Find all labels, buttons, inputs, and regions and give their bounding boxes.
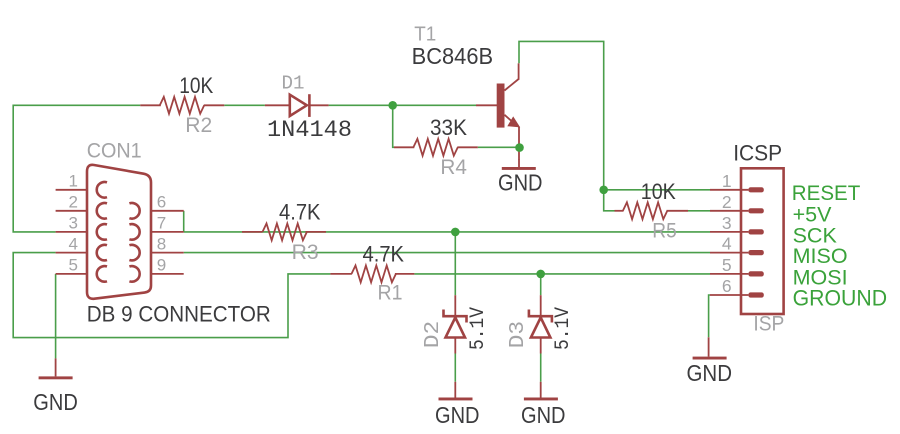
wire collector to ICSP vertical rail bbox=[519, 41, 604, 189]
svg-text:R2: R2 bbox=[185, 114, 212, 137]
wire MISO net DB9 pin8 to ICSP pin4 bbox=[184, 252, 710, 254]
svg-text:ISP: ISP bbox=[753, 312, 784, 335]
svg-text:D3: D3 bbox=[507, 321, 530, 349]
diode D1 1N4148 bbox=[265, 73, 352, 145]
svg-text:6: 6 bbox=[722, 276, 732, 296]
svg-text:BC846B: BC846B bbox=[412, 43, 494, 69]
resistor R3 bbox=[242, 200, 326, 265]
svg-text:10K: 10K bbox=[641, 179, 676, 204]
svg-text:GROUND: GROUND bbox=[793, 285, 888, 310]
svg-text:8: 8 bbox=[157, 234, 166, 253]
ICSP pin 4 bbox=[710, 234, 764, 256]
svg-text:GND: GND bbox=[33, 389, 78, 415]
wire node to ICSP pin1 RESET bbox=[604, 189, 710, 191]
svg-text:5: 5 bbox=[69, 256, 78, 275]
svg-text:5.1V: 5.1V bbox=[467, 307, 490, 350]
svg-text:33K: 33K bbox=[430, 115, 467, 140]
DB9 pin 1 bbox=[56, 172, 107, 198]
svg-text:3: 3 bbox=[722, 213, 732, 233]
ground under D2 bbox=[435, 382, 480, 428]
connector CON1 DB9 bbox=[87, 140, 271, 327]
wire SCK net DB9 pin7 to ICSP pin3 bbox=[184, 231, 710, 233]
DB9 pin 8 bbox=[129, 234, 183, 260]
svg-text:GND: GND bbox=[435, 402, 480, 428]
DB9 pin 9 bbox=[129, 256, 183, 282]
node MOSI-D3 junction bbox=[536, 270, 545, 279]
node collector junction bbox=[599, 186, 608, 195]
DB9 pin 5 bbox=[56, 256, 107, 282]
wire R4 to emitter node bbox=[478, 146, 520, 148]
node base junction bbox=[388, 101, 397, 110]
svg-text:4: 4 bbox=[69, 234, 78, 253]
ground under D3 bbox=[521, 382, 566, 428]
svg-text:D2: D2 bbox=[422, 321, 445, 349]
wire D3 bottom to GND bbox=[540, 354, 542, 382]
svg-text:GND: GND bbox=[687, 360, 733, 386]
svg-text:2: 2 bbox=[722, 192, 732, 212]
node emitter junction bbox=[515, 143, 524, 152]
svg-text:5: 5 bbox=[722, 255, 732, 275]
svg-text:10K: 10K bbox=[179, 73, 213, 98]
svg-text:R3: R3 bbox=[292, 241, 319, 264]
svg-text:D1: D1 bbox=[282, 73, 305, 95]
ground under T1 bbox=[498, 159, 543, 196]
wire D3 top bbox=[540, 274, 542, 295]
wire DB9 pin5 to GND bbox=[55, 274, 57, 359]
DB9 pin 3 bbox=[56, 214, 107, 240]
connector ICSP header bbox=[733, 140, 784, 335]
ICSP pin 3 bbox=[710, 213, 764, 235]
wire MOSI net R1 to ICSP pin5 bbox=[414, 273, 710, 275]
ICSP pin 6 bbox=[710, 276, 764, 298]
svg-text:R5: R5 bbox=[652, 219, 677, 242]
svg-text:6: 6 bbox=[157, 193, 166, 212]
DB9 pin 7 bbox=[129, 214, 183, 240]
svg-text:4.7K: 4.7K bbox=[363, 242, 405, 267]
resistor R4 bbox=[394, 115, 478, 179]
resistor R2 bbox=[140, 73, 224, 137]
svg-text:3: 3 bbox=[69, 214, 78, 233]
wire R2 to D1 bbox=[224, 104, 265, 106]
svg-text:1: 1 bbox=[69, 172, 78, 191]
svg-text:CON1: CON1 bbox=[87, 140, 142, 163]
ground under ICSP bbox=[687, 337, 733, 386]
ICSP pin 5 bbox=[710, 255, 764, 277]
svg-text:5.1V: 5.1V bbox=[552, 307, 575, 350]
resistor R5 bbox=[615, 179, 689, 242]
wire node down to R5 bbox=[604, 190, 615, 211]
wire D2 top bbox=[454, 232, 456, 295]
svg-text:4.7K: 4.7K bbox=[279, 200, 321, 225]
transistor T1 BC846B bbox=[412, 24, 521, 160]
wire R5 to ICSP pin2 bbox=[688, 210, 710, 212]
svg-text:7: 7 bbox=[157, 214, 166, 233]
svg-text:DB 9 CONNECTOR: DB 9 CONNECTOR bbox=[87, 302, 271, 327]
wire base node to T1 base bbox=[476, 104, 498, 106]
wire loop DB9 pin4 to R1 bbox=[13, 253, 330, 338]
wire ICSP pin6 to GND bbox=[709, 295, 710, 337]
resistor R1 bbox=[330, 242, 414, 305]
svg-text:R1: R1 bbox=[378, 282, 403, 305]
ICSP pin 1 bbox=[710, 171, 764, 193]
DB9 pin 2 bbox=[56, 193, 107, 219]
wire base node down to R4 bbox=[393, 105, 394, 147]
svg-text:1: 1 bbox=[722, 171, 732, 191]
zener diode D2 5.1V bbox=[422, 295, 490, 353]
svg-text:GND: GND bbox=[521, 402, 566, 428]
svg-text:ICSP: ICSP bbox=[733, 140, 782, 165]
svg-text:4: 4 bbox=[722, 234, 732, 254]
wire DB9 pin6 to pin7 link bbox=[183, 211, 185, 232]
wire D2 bottom to GND bbox=[454, 354, 456, 382]
ICSP pin 2 bbox=[710, 192, 764, 214]
wire D1 to base node bbox=[329, 104, 476, 106]
ground under DB9 bbox=[33, 358, 78, 414]
DB9 pin 6 bbox=[129, 193, 183, 219]
node SCK-D2 junction bbox=[451, 228, 460, 237]
zener diode D3 5.1V bbox=[507, 295, 575, 353]
svg-text:2: 2 bbox=[69, 193, 78, 212]
svg-text:GND: GND bbox=[498, 170, 543, 196]
wire left rail from R2 to DB9 pin3 bbox=[13, 105, 140, 232]
DB9 pin 4 bbox=[56, 234, 107, 260]
svg-text:9: 9 bbox=[157, 256, 166, 275]
svg-text:1N4148: 1N4148 bbox=[267, 117, 352, 144]
svg-text:R4: R4 bbox=[440, 156, 467, 179]
